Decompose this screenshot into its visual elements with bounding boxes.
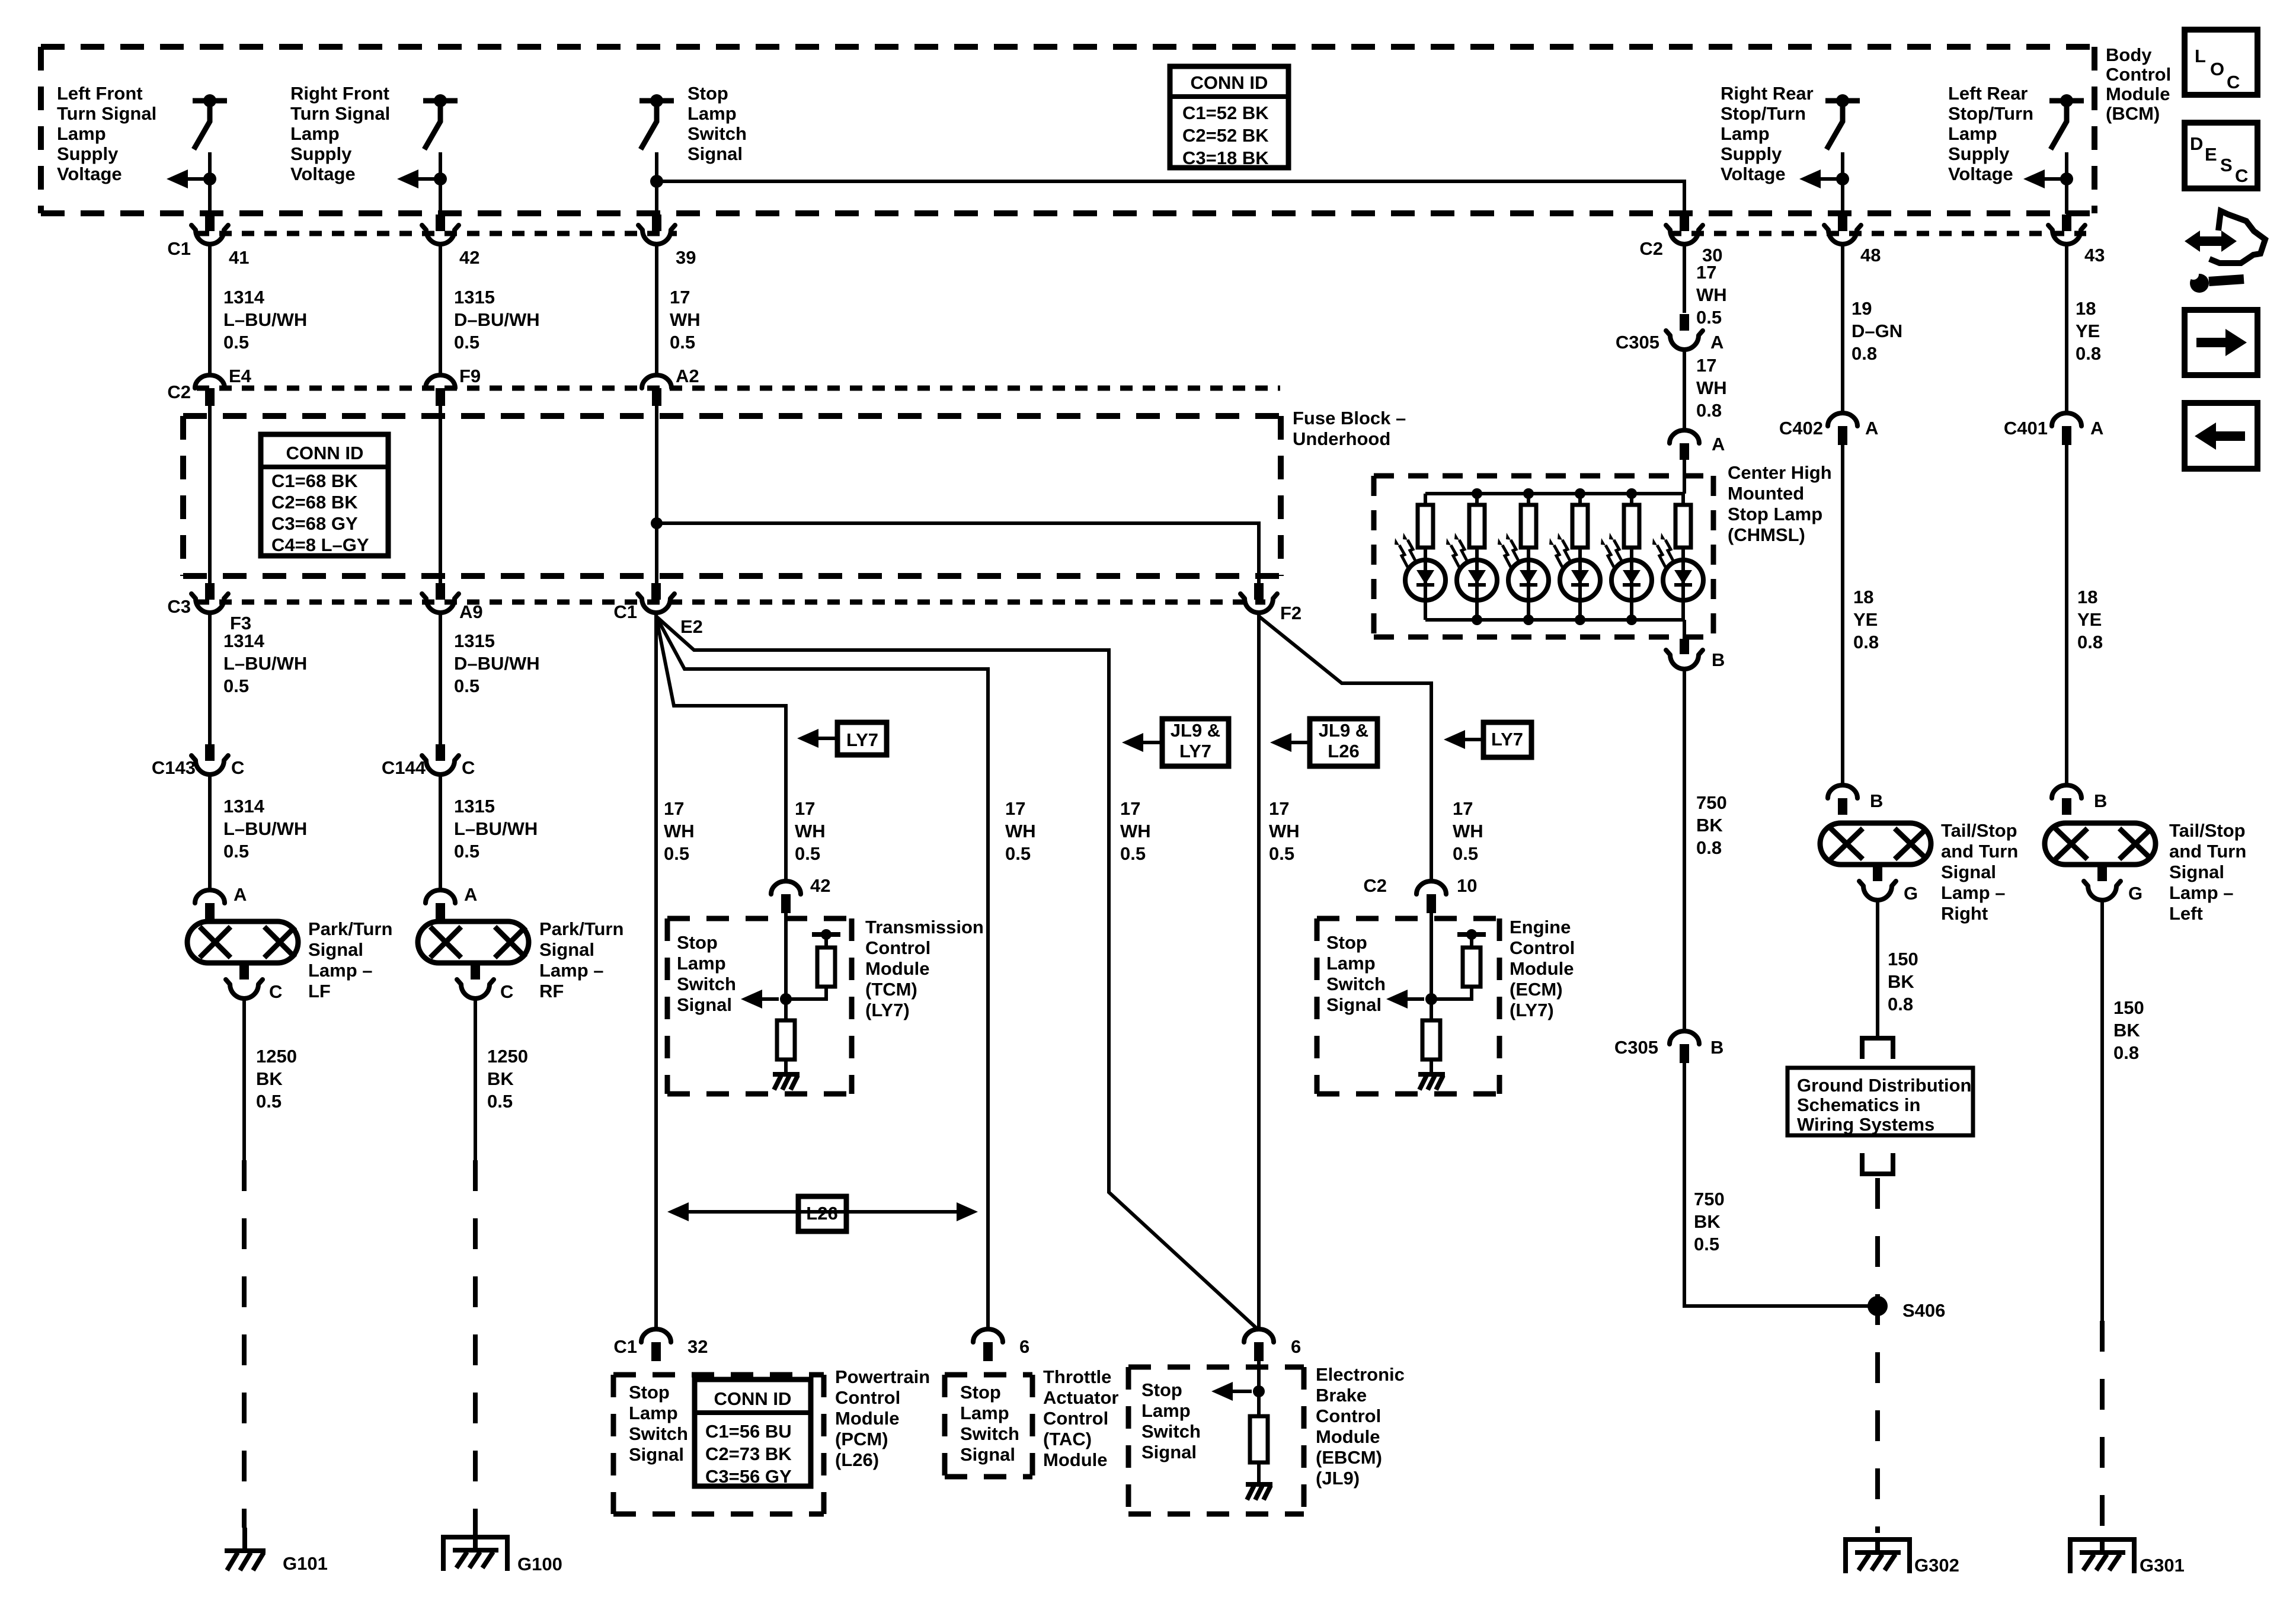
svg-text:LY7: LY7 <box>1179 741 1211 761</box>
connector tail lamp right pin B <box>1828 785 1857 798</box>
svg-text:C1=56 BU: C1=56 BU <box>705 1421 792 1442</box>
svg-text:C2=73 BK: C2=73 BK <box>705 1443 792 1464</box>
CHMSL bottom bus <box>1425 618 1684 622</box>
svg-text:L–BU/WH: L–BU/WH <box>223 653 307 674</box>
svg-text:C2=52 BK: C2=52 BK <box>1182 125 1269 146</box>
svg-text:C3=56 GY: C3=56 GY <box>705 1466 792 1487</box>
svg-text:WH: WH <box>1005 821 1036 841</box>
connector C2 pin 43 <box>2048 225 2085 244</box>
BCM C2 connector face dotted line <box>1669 231 2086 236</box>
TAC dashed box <box>945 1375 1032 1477</box>
svg-text:1314: 1314 <box>223 796 265 817</box>
svg-text:17: 17 <box>664 798 684 819</box>
svg-text:Stop: Stop <box>1141 1379 1182 1400</box>
svg-text:Supply: Supply <box>57 143 119 164</box>
svg-text:0.5: 0.5 <box>454 841 479 862</box>
fuse block connector pin F2 <box>1240 594 1277 613</box>
tail lamp right connector pin G <box>1859 881 1896 900</box>
TCM dashed box <box>667 918 852 1094</box>
fuse block bottom pin stub F3 <box>205 583 215 600</box>
svg-text:0.5: 0.5 <box>454 332 479 353</box>
svg-text:Tail/Stop: Tail/Stop <box>2169 820 2246 841</box>
svg-text:750: 750 <box>1696 792 1727 813</box>
svg-text:Voltage: Voltage <box>1721 164 1786 184</box>
switch LF turn supply (BCM) <box>193 98 227 104</box>
junction TCM <box>780 993 792 1005</box>
svg-text:Stop: Stop <box>629 1382 670 1403</box>
svg-text:Lamp: Lamp <box>687 103 737 124</box>
svg-text:0.8: 0.8 <box>1888 994 1913 1014</box>
fuse block connector pin F3 <box>191 594 228 613</box>
fuse block bottom pin stub A9 <box>436 583 445 600</box>
svg-text:Module: Module <box>1316 1426 1380 1447</box>
icon box right arrow <box>2185 310 2257 375</box>
svg-text:O: O <box>2210 59 2224 79</box>
svg-text:0.5: 0.5 <box>664 843 689 864</box>
switch RR stop/turn supply (BCM) <box>1825 98 1860 104</box>
inline connector C143 pin C <box>191 756 228 774</box>
switch stop lamp (BCM) <box>639 98 674 104</box>
park/turn signal lamp LF <box>187 921 298 963</box>
svg-text:150: 150 <box>2113 997 2144 1018</box>
svg-text:G100: G100 <box>517 1554 562 1574</box>
CHMSL LED string 4 <box>1578 494 1582 505</box>
svg-text:C: C <box>462 757 475 778</box>
svg-text:C305: C305 <box>1616 332 1659 353</box>
CHMSL LED string 3 <box>1527 494 1530 505</box>
svg-text:B: B <box>1870 790 1883 811</box>
junction stop lamp switch <box>650 175 663 188</box>
svg-text:F9: F9 <box>459 366 481 386</box>
svg-text:(EBCM): (EBCM) <box>1316 1447 1382 1468</box>
fuse block connector pin E2 <box>638 594 674 613</box>
svg-text:Right Front: Right Front <box>290 83 389 104</box>
svg-text:Lamp: Lamp <box>290 123 340 144</box>
CONN ID table (PCM) <box>695 1379 811 1487</box>
icon box left arrow <box>2185 403 2257 469</box>
wire fuse block col2 <box>439 406 442 584</box>
svg-text:Signal: Signal <box>539 939 594 960</box>
fuse block connector pin E4 <box>195 375 225 388</box>
svg-text:A: A <box>2090 418 2103 438</box>
svg-text:and Turn: and Turn <box>2169 841 2246 862</box>
park/turn signal lamp RF <box>418 921 529 963</box>
svg-text:C1=68 BK: C1=68 BK <box>271 470 358 491</box>
icon box LOC <box>2185 30 2257 95</box>
pin stub C305 A <box>1680 314 1689 331</box>
svg-text:C305: C305 <box>1614 1037 1658 1058</box>
svg-text:Lamp: Lamp <box>1721 123 1770 144</box>
tail lamp left bottom pin <box>2097 865 2107 881</box>
connector pin stub 30 <box>1680 215 1689 231</box>
wire 750 BK 0.8 <box>1683 669 1686 1031</box>
pin stub C143 <box>205 744 215 761</box>
svg-text:43: 43 <box>2084 245 2105 265</box>
wire 1315 to RF lamp <box>439 774 442 890</box>
CONN ID table (BCM) <box>1170 66 1288 168</box>
svg-text:0.5: 0.5 <box>256 1091 282 1112</box>
svg-text:6: 6 <box>1019 1336 1029 1357</box>
connector C2 pin 48 <box>1824 225 1861 244</box>
svg-text:Signal: Signal <box>629 1444 684 1465</box>
lamp bottom pin (RF) <box>471 963 480 980</box>
svg-text:Module: Module <box>1043 1449 1108 1470</box>
fuse block top connector face dotted line <box>197 386 1280 391</box>
arrow tag LY7 left <box>803 737 837 740</box>
svg-text:0.8: 0.8 <box>2113 1042 2139 1063</box>
svg-text:Stop: Stop <box>960 1382 1001 1403</box>
resistor TCM pull-up <box>817 948 835 987</box>
wire 18 YE 0.8 left-rear <box>2065 445 2068 785</box>
svg-text:Stop Lamp: Stop Lamp <box>1728 504 1822 524</box>
svg-text:Signal: Signal <box>1941 862 1996 882</box>
resistor ECM pull-up <box>1463 948 1480 987</box>
svg-text:CONN ID: CONN ID <box>1191 72 1268 93</box>
svg-text:0.8: 0.8 <box>1696 400 1722 421</box>
svg-text:LY7: LY7 <box>1491 729 1523 750</box>
svg-text:Switch: Switch <box>960 1423 1019 1444</box>
svg-text:17: 17 <box>795 798 815 819</box>
svg-text:Voltage: Voltage <box>57 164 122 184</box>
svg-text:CONN ID: CONN ID <box>714 1388 792 1409</box>
svg-text:E: E <box>2205 144 2217 165</box>
svg-text:19: 19 <box>1851 298 1872 319</box>
svg-text:Right Rear: Right Rear <box>1721 83 1814 104</box>
svg-text:Signal: Signal <box>308 939 363 960</box>
svg-text:Lamp: Lamp <box>677 953 726 974</box>
wire 150 BK 0.8 left <box>2100 900 2104 1321</box>
svg-text:Ground Distribution: Ground Distribution <box>1797 1075 1971 1096</box>
tail lamp right bottom pin <box>1873 865 1882 881</box>
wire 17 WH (BCM to fuse block) <box>655 244 658 375</box>
pin stub C305 B <box>1680 1044 1689 1063</box>
lamp connector pin A (LF) <box>195 890 225 903</box>
svg-text:D–BU/WH: D–BU/WH <box>454 309 540 330</box>
wire EBCM internal <box>1257 1361 1261 1416</box>
svg-text:C2: C2 <box>1363 875 1387 896</box>
svg-text:Schematics in: Schematics in <box>1797 1094 1920 1115</box>
svg-text:L26: L26 <box>1328 741 1359 761</box>
ECM dashed box <box>1317 918 1499 1094</box>
svg-text:D–BU/WH: D–BU/WH <box>454 653 540 674</box>
svg-text:150: 150 <box>1888 949 1918 969</box>
fuse block bottom pin stub F2 <box>1254 583 1264 600</box>
svg-text:18: 18 <box>2076 298 2096 319</box>
svg-text:0.8: 0.8 <box>2077 632 2103 652</box>
wire dashed to G301 <box>2100 1321 2105 1533</box>
tag JL9 & L26 <box>1310 719 1377 766</box>
svg-text:L–BU/WH: L–BU/WH <box>454 818 538 839</box>
junction EBCM <box>1253 1385 1265 1397</box>
wire 1314 L-BU/WH (BCM to fuse block) <box>208 244 212 375</box>
svg-text:BK: BK <box>1694 1211 1721 1232</box>
svg-text:Switch: Switch <box>687 123 747 144</box>
svg-text:WH: WH <box>664 821 695 841</box>
fuse block bottom pin stub E2 <box>651 583 661 600</box>
wire stop lamp to C2 column <box>657 181 1684 214</box>
svg-text:B: B <box>1710 1037 1723 1058</box>
arrow ECM signal <box>1392 997 1424 1001</box>
svg-text:41: 41 <box>229 247 249 268</box>
svg-text:B: B <box>1712 649 1725 670</box>
EBCM dashed box <box>1128 1367 1304 1514</box>
svg-text:(BCM): (BCM) <box>2106 103 2160 124</box>
tail lamp left connector pin G <box>2084 881 2121 900</box>
svg-text:F2: F2 <box>1280 603 1302 623</box>
arrow tag LY7 right <box>1450 738 1483 741</box>
svg-text:B: B <box>2094 790 2107 811</box>
svg-text:Right: Right <box>1941 903 1988 924</box>
svg-text:6: 6 <box>1291 1336 1301 1357</box>
svg-text:A: A <box>1710 332 1723 353</box>
pin stub CHMSL B <box>1680 639 1689 654</box>
connector pin stub 48 <box>1838 215 1847 231</box>
connector C2 pin 30 <box>1666 225 1703 244</box>
svg-text:C3=18 BK: C3=18 BK <box>1182 148 1269 168</box>
svg-text:E2: E2 <box>680 616 703 637</box>
wire branch to TCM (fan C) <box>656 616 786 881</box>
switch LR stop/turn supply (BCM) <box>2049 98 2084 104</box>
svg-text:C402: C402 <box>1779 418 1823 438</box>
svg-text:WH: WH <box>670 309 701 330</box>
fuse block connector pin F9 <box>426 375 455 388</box>
svg-text:17: 17 <box>1005 798 1025 819</box>
lamp connector pin A (RF) <box>426 890 455 903</box>
wire CHMSL out <box>1683 620 1686 639</box>
svg-text:Voltage: Voltage <box>1948 164 2013 184</box>
svg-text:0.5: 0.5 <box>223 676 249 696</box>
svg-text:BK: BK <box>487 1068 514 1089</box>
wire dashed to G101 <box>242 1160 247 1528</box>
wire 1314 to C143 <box>208 613 212 745</box>
svg-text:G301: G301 <box>2140 1555 2185 1576</box>
fuse block connector pin A9 <box>422 594 459 613</box>
wire fuse block col3 <box>655 406 658 584</box>
lamp connector pin C (RF) <box>457 980 494 998</box>
pin stub C144 <box>436 744 445 761</box>
svg-text:BK: BK <box>1888 971 1914 992</box>
svg-text:WH: WH <box>1120 821 1151 841</box>
ground G101 <box>242 1528 247 1550</box>
connector C1 pin 39 <box>638 225 675 244</box>
svg-text:Left Rear: Left Rear <box>1948 83 2028 104</box>
wire dashed to G302 <box>1875 1178 1880 1533</box>
svg-text:Powertrain: Powertrain <box>835 1366 930 1387</box>
junction fuse block stop lamp <box>651 517 663 529</box>
resistor TCM series <box>777 1020 795 1060</box>
wire 19 D-GN to C402 <box>1841 244 1844 413</box>
svg-text:Module: Module <box>835 1408 900 1429</box>
CONN ID table (fuse block) <box>261 434 388 556</box>
svg-text:Brake: Brake <box>1316 1385 1367 1406</box>
BCM outer dashed box <box>41 47 2094 213</box>
svg-text:Signal: Signal <box>2169 862 2224 882</box>
svg-text:1315: 1315 <box>454 630 495 651</box>
arrow tag JL9 & LY7 <box>1128 741 1162 744</box>
svg-text:0.5: 0.5 <box>1694 1234 1719 1254</box>
svg-text:Lamp: Lamp <box>1141 1400 1191 1421</box>
svg-text:YE: YE <box>2077 609 2102 630</box>
off-page bracket upper <box>1860 1038 1895 1059</box>
svg-text:Control: Control <box>1510 937 1575 958</box>
svg-text:A: A <box>464 884 477 905</box>
wire TCM internal <box>784 913 788 1020</box>
CHMSL LED string 2 <box>1475 494 1479 505</box>
svg-text:32: 32 <box>687 1336 708 1357</box>
resistor EBCM series <box>1250 1416 1268 1462</box>
ground EBCM internal <box>1246 1482 1272 1487</box>
svg-text:BK: BK <box>1696 815 1723 836</box>
svg-text:Signal: Signal <box>687 143 743 164</box>
svg-text:17: 17 <box>1696 355 1716 376</box>
svg-text:Underhood: Underhood <box>1293 428 1390 449</box>
svg-text:Signal: Signal <box>1326 994 1382 1015</box>
connector TAC pin 6 <box>973 1329 1003 1342</box>
svg-text:39: 39 <box>676 247 696 268</box>
svg-text:17: 17 <box>670 287 690 308</box>
svg-text:Voltage: Voltage <box>290 164 356 184</box>
svg-text:(PCM): (PCM) <box>835 1429 888 1449</box>
arrow tag JL9 & L26 <box>1276 741 1310 744</box>
svg-text:Supply: Supply <box>290 143 352 164</box>
svg-text:Stop/Turn: Stop/Turn <box>1721 103 1806 124</box>
svg-text:A: A <box>1712 434 1725 454</box>
svg-text:Control: Control <box>835 1387 900 1408</box>
connector CHMSL pin B <box>1666 650 1703 669</box>
svg-text:1250: 1250 <box>487 1046 528 1067</box>
svg-text:C: C <box>231 757 244 778</box>
svg-text:Tail/Stop: Tail/Stop <box>1941 820 2017 841</box>
svg-text:RF: RF <box>539 981 564 1001</box>
svg-text:A2: A2 <box>676 366 699 386</box>
svg-text:C4=8 L–GY: C4=8 L–GY <box>271 534 369 555</box>
CHMSL LED string 6 <box>1681 494 1685 505</box>
fuse block bottom connector face dotted line <box>197 600 1265 605</box>
svg-text:D: D <box>2190 133 2203 154</box>
svg-text:G: G <box>1904 883 1918 904</box>
svg-text:G101: G101 <box>283 1553 328 1574</box>
svg-text:C: C <box>2227 72 2240 92</box>
svg-text:C: C <box>269 981 282 1002</box>
splice S406 <box>1868 1296 1888 1316</box>
svg-text:Lamp: Lamp <box>1326 953 1376 974</box>
svg-text:Turn Signal: Turn Signal <box>290 103 390 124</box>
svg-text:Supply: Supply <box>1721 143 1782 164</box>
wire branch to EBCM via JL9&LY7 (fan A) <box>656 616 1259 1330</box>
svg-text:and Turn: and Turn <box>1941 841 2018 862</box>
svg-text:CONN ID: CONN ID <box>286 443 364 463</box>
svg-text:C3: C3 <box>167 596 191 617</box>
svg-text:WH: WH <box>1696 377 1727 398</box>
svg-text:S406: S406 <box>1902 1300 1945 1321</box>
svg-text:D–GN: D–GN <box>1851 321 1902 341</box>
svg-text:(TCM): (TCM) <box>865 979 917 1000</box>
tail/stop and turn signal lamp - right <box>1820 823 1931 865</box>
svg-text:C1: C1 <box>613 1336 637 1357</box>
svg-text:Lamp –: Lamp – <box>1941 882 2006 903</box>
svg-text:1250: 1250 <box>256 1046 297 1067</box>
svg-text:0.5: 0.5 <box>795 843 820 864</box>
svg-text:42: 42 <box>810 875 830 896</box>
svg-text:Transmission: Transmission <box>865 917 984 937</box>
svg-text:10: 10 <box>1457 875 1477 896</box>
resistor ECM series <box>1422 1020 1440 1060</box>
svg-text:Lamp: Lamp <box>960 1403 1009 1423</box>
svg-text:C401: C401 <box>2004 418 2048 438</box>
svg-text:C2=68 BK: C2=68 BK <box>271 492 358 513</box>
svg-text:Signal: Signal <box>677 994 732 1015</box>
svg-text:E4: E4 <box>229 366 252 386</box>
connector C1 pin 41 <box>191 225 228 244</box>
svg-text:Actuator: Actuator <box>1043 1387 1118 1408</box>
svg-text:C2: C2 <box>1639 238 1663 259</box>
Fuse Block - Underhood dashed box <box>183 416 1281 576</box>
svg-text:42: 42 <box>459 247 479 268</box>
svg-text:0.5: 0.5 <box>670 332 695 353</box>
svg-text:(JL9): (JL9) <box>1316 1468 1360 1489</box>
connector PCM C1 pin 32 <box>641 1329 671 1342</box>
svg-text:18: 18 <box>1853 587 1873 607</box>
arrow EBCM signal <box>1217 1390 1252 1393</box>
connector TCM pin 42 <box>771 881 801 894</box>
svg-text:Stop: Stop <box>687 83 728 104</box>
svg-text:Signal: Signal <box>1141 1442 1197 1462</box>
switch RF turn supply (BCM) <box>423 98 458 104</box>
svg-text:C143: C143 <box>152 757 196 778</box>
inline connector C305 pin B <box>1670 1031 1699 1044</box>
svg-text:A: A <box>234 884 247 905</box>
off-page bracket lower <box>1860 1153 1895 1174</box>
svg-text:L26: L26 <box>806 1203 837 1224</box>
svg-text:Switch: Switch <box>629 1423 688 1444</box>
svg-text:Switch: Switch <box>1326 974 1386 994</box>
ground TCM internal <box>773 1072 800 1077</box>
wire fuse block to F2 <box>657 523 1259 583</box>
svg-text:C1: C1 <box>613 601 637 622</box>
svg-text:Stop: Stop <box>677 932 718 953</box>
svg-text:Wiring Systems: Wiring Systems <box>1797 1114 1934 1135</box>
svg-text:Module: Module <box>865 958 930 979</box>
wire dashed to G100 <box>473 1160 478 1526</box>
connector pin stub 43 <box>2062 215 2071 231</box>
BCM C1 connector face dotted line <box>197 231 677 236</box>
arrow TCM signal <box>747 997 779 1001</box>
wire 17 WH 0.5 (to C305 A) <box>1683 244 1686 313</box>
svg-text:C1: C1 <box>167 238 191 259</box>
svg-text:17: 17 <box>1696 262 1716 283</box>
svg-text:(L26): (L26) <box>835 1449 879 1470</box>
svg-text:0.5: 0.5 <box>1453 843 1478 864</box>
svg-text:L: L <box>2195 46 2206 66</box>
svg-text:G: G <box>2128 883 2142 904</box>
svg-text:17: 17 <box>1453 798 1473 819</box>
svg-text:Switch: Switch <box>1141 1421 1201 1442</box>
svg-text:Module: Module <box>2106 84 2170 104</box>
svg-text:Lamp –: Lamp – <box>308 960 373 981</box>
wire 1315 D-BU/WH (BCM to fuse block) <box>439 244 442 375</box>
CHMSL top bus <box>1425 492 1684 495</box>
svg-text:Park/Turn: Park/Turn <box>539 918 623 939</box>
svg-text:LY7: LY7 <box>846 729 878 750</box>
TCM pull-up network <box>821 929 832 940</box>
svg-text:(ECM): (ECM) <box>1510 979 1563 1000</box>
svg-text:0.5: 0.5 <box>1005 843 1031 864</box>
PCM dashed box <box>613 1375 824 1514</box>
svg-text:L–BU/WH: L–BU/WH <box>223 309 307 330</box>
svg-text:Lamp: Lamp <box>629 1403 678 1423</box>
connector CHMSL pin A <box>1670 430 1699 443</box>
connector ECM C2 pin 10 <box>1416 881 1446 894</box>
